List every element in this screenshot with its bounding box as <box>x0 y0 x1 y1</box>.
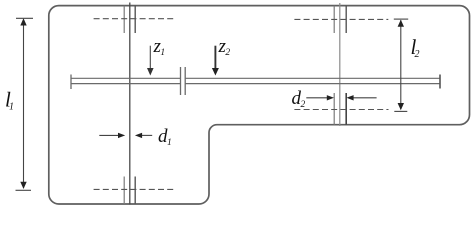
svg-text:d2: d2 <box>292 88 306 110</box>
svg-text:z1: z1 <box>153 36 166 58</box>
svg-text:d1: d1 <box>158 126 172 148</box>
svg-text:l2: l2 <box>411 35 420 60</box>
svg-text:z2: z2 <box>218 36 231 58</box>
svg-text:l1: l1 <box>5 88 14 113</box>
